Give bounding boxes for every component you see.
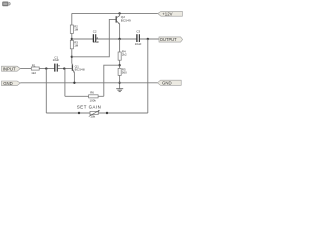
wire ground rail [20, 82, 157, 84]
node Q1 emitter ground [73, 82, 75, 84]
wire Q2 emitter to output line [119, 24, 121, 39]
transistor Q2 [116, 15, 131, 24]
node input tap [45, 67, 47, 69]
resistor R3 [70, 40, 79, 48]
node link junction [71, 56, 73, 58]
svg-text:SET GAIN: SET GAIN [77, 105, 101, 110]
GND flag right [157, 80, 181, 85]
wire input-side gain drop [45, 69, 47, 113]
node R4-R5 junction [118, 64, 120, 66]
svg-text:GND: GND [3, 81, 13, 86]
svg-text:100k: 100k [90, 99, 97, 103]
wire R3 to Q1 collector column [71, 49, 73, 63]
svg-text:BC548: BC548 [75, 67, 85, 71]
ground symbol [116, 89, 123, 92]
resistor R1 [31, 63, 39, 75]
svg-text:1M: 1M [74, 44, 79, 48]
node gain right [106, 112, 108, 114]
+12V power flag [158, 11, 183, 16]
node top rail / Q2 collector [118, 12, 120, 14]
resistor R6 [89, 91, 99, 103]
svg-text:2k2: 2k2 [122, 52, 127, 56]
wire output/bootstrap line [72, 38, 159, 40]
wire bottom gain line [46, 112, 148, 114]
wire output-side gain drop [147, 39, 149, 113]
svg-text:C2: C2 [93, 30, 97, 34]
wire feedback tap line [104, 65, 120, 96]
svg-text:10uF: 10uF [135, 42, 142, 46]
node gain left [78, 112, 80, 114]
svg-text:BC549: BC549 [121, 18, 131, 22]
svg-text:10uF: 10uF [53, 58, 60, 62]
transistor Q1 [72, 63, 85, 72]
trimmer R7 [77, 105, 101, 119]
svg-text:560: 560 [122, 71, 127, 75]
resistor R4 [118, 50, 127, 61]
capacitor C2 [93, 30, 100, 44]
node output right [147, 38, 149, 40]
wire R2 top stub [71, 13, 73, 25]
OUTPUT flag [159, 37, 183, 42]
node Q1 base [63, 67, 65, 69]
wire R5 to ground [119, 75, 121, 88]
resistor R5 [118, 68, 127, 76]
wire Q1 emitter [73, 72, 75, 82]
svg-text:GND: GND [162, 81, 172, 86]
wire R4 stubs [119, 39, 121, 68]
svg-text:10k: 10k [90, 114, 95, 118]
wire R2-R3 stub [71, 33, 73, 40]
capacitor C3 [135, 30, 142, 46]
INPUT flag [2, 66, 21, 71]
capacitor C1 [53, 55, 60, 71]
wire top rail [72, 12, 158, 14]
wire Q2 collector stub [119, 13, 121, 16]
node Q2 emitter output [118, 38, 120, 40]
toolbar icon [2, 2, 10, 7]
svg-text:+12V: +12V [162, 12, 172, 17]
wire input line [20, 68, 72, 70]
wire link line Q1-Q2 [72, 19, 116, 56]
svg-text:10uF: 10uF [93, 40, 100, 44]
svg-text:R1: R1 [32, 63, 36, 67]
node bootstrap junction [71, 38, 73, 40]
svg-text:INPUT: INPUT [3, 66, 16, 71]
svg-text:C3: C3 [136, 30, 140, 34]
svg-text:1k2: 1k2 [31, 71, 36, 75]
resistor R2 [70, 25, 79, 34]
node ground rail junction [118, 82, 120, 84]
wire R6 line [65, 95, 104, 97]
wire base feedback drop [64, 69, 66, 97]
GND flag left [2, 81, 21, 86]
svg-text:1M: 1M [74, 28, 79, 32]
svg-text:OUTPUT: OUTPUT [160, 37, 177, 42]
svg-text:R6: R6 [90, 91, 94, 95]
